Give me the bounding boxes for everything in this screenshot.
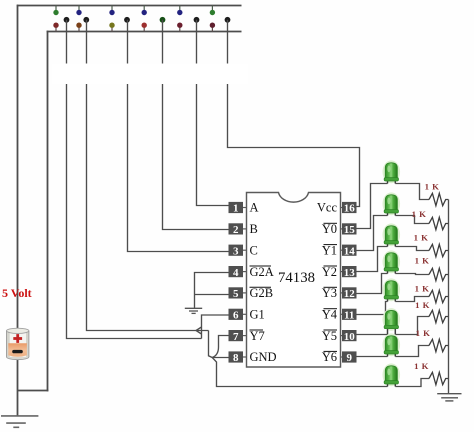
wire battery negative down — [17, 359, 19, 416]
wire U1 pin4 G2A to ground — [195, 273, 229, 309]
wire SW6 to U1 pin16 Vcc — [228, 20, 360, 207]
svg-text:5 Volt: 5 Volt — [2, 286, 32, 300]
U1 pin 16 number — [341, 202, 357, 215]
wire U1 pin 13 Y2 to LED D3 — [357, 247, 388, 272]
svg-text:10: 10 — [344, 331, 356, 343]
resistor R5 1K — [429, 290, 448, 302]
U1 pin 4 label G2A — [250, 265, 274, 279]
wire J1 to J2 — [209, 331, 213, 358]
switch SW2 throw contact high — [76, 6, 81, 16]
junction J1 arrow — [196, 327, 202, 334]
svg-text:GND: GND — [250, 350, 277, 364]
switch SW3 throw contact low — [109, 23, 114, 32]
svg-text:1 K: 1 K — [414, 233, 429, 243]
wire resistor rail to ground — [448, 200, 450, 394]
svg-text:G2B: G2B — [250, 286, 274, 300]
switch SW5 pole — [194, 17, 200, 23]
resistor R1 1K — [429, 193, 448, 205]
wire SW2 to junction J1 — [87, 20, 209, 331]
U1 pin 9 label Y6 — [322, 350, 337, 364]
svg-text:Y7: Y7 — [250, 329, 265, 343]
wire U1 pin7 Y7 to J2 — [212, 336, 228, 358]
wire LED D5 to resistor R5 — [395, 297, 429, 302]
label R8 value 1 K — [414, 361, 429, 371]
label 5 Volt — [2, 286, 32, 300]
U1 pin 7 label Y7 — [250, 329, 265, 343]
U1 pin 11 number — [341, 309, 357, 322]
resistor R7 1K — [429, 339, 448, 351]
svg-text:1 K: 1 K — [425, 182, 440, 192]
wire LED D7 to resistor R7 — [395, 346, 429, 357]
wire SW5 to U1 pin1 A — [197, 20, 229, 206]
label R5 value 1 K — [415, 284, 430, 294]
svg-text:9: 9 — [346, 352, 352, 364]
label R2 value 1 K — [412, 209, 427, 219]
switch SW4 throw contact high — [142, 6, 147, 16]
wire LED D6 to resistor R6 — [395, 317, 429, 335]
wire U1 pin to LED D7 — [357, 356, 388, 358]
U1 pin 15 label Y0 — [322, 222, 337, 236]
LED D8 — [383, 363, 401, 386]
switch SW2 throw contact low — [76, 23, 81, 32]
wire J2 to LED D8 rail — [212, 358, 387, 387]
resistor R6 1K — [429, 310, 448, 322]
resistor R8 1K — [429, 372, 448, 384]
LED D6 — [383, 308, 401, 334]
wire U1 pin 14 Y1 to LED D2 — [357, 216, 388, 251]
U1 pin 5 number — [229, 287, 247, 300]
svg-text:Y2: Y2 — [322, 265, 337, 279]
U1 pin 9 number — [341, 351, 357, 364]
wire U1 pin to LED D6 — [357, 334, 388, 336]
svg-text:5: 5 — [233, 288, 239, 300]
U1 pin 11 label Y4 — [322, 308, 338, 322]
switch SW6 throw contact high — [210, 6, 215, 16]
U1 pin 16 label Vcc — [317, 201, 338, 215]
LED D3 — [383, 223, 401, 246]
svg-text:1 K: 1 K — [414, 361, 429, 371]
svg-text:14: 14 — [344, 245, 356, 257]
switch SW4 pole — [160, 17, 166, 23]
LED D4 — [383, 250, 401, 273]
wire SW4 to U1 pin2 B — [163, 20, 229, 230]
U1 pin 10 number — [341, 330, 357, 343]
svg-text:1 K: 1 K — [412, 209, 427, 219]
svg-text:74138: 74138 — [278, 270, 315, 286]
svg-text:1: 1 — [233, 203, 239, 215]
resistor R2 1K — [429, 217, 448, 229]
label R4 value 1 K — [415, 256, 430, 266]
switch SW1 pole — [64, 17, 70, 23]
U1 pin 1 label A — [250, 201, 259, 215]
label R7 value 1 K — [416, 328, 431, 338]
svg-text:12: 12 — [344, 288, 356, 300]
battery B1 5 Volt — [7, 328, 29, 360]
svg-text:11: 11 — [344, 310, 354, 322]
wire U1 pin5 G2B junction — [195, 294, 229, 296]
svg-text:G1: G1 — [250, 308, 265, 322]
svg-text:1 K: 1 K — [415, 256, 430, 266]
U1 pin 10 label Y5 — [322, 329, 337, 343]
switch SW6 throw contact low — [210, 23, 215, 32]
wire SW1 to junction J1 — [67, 20, 202, 339]
U1 pin 7 number — [229, 330, 247, 343]
wire LED D2 to resistor R2 — [395, 216, 429, 224]
wire LED D4 to resistor R4 — [395, 274, 429, 275]
U1 pin 12 label Y3 — [322, 286, 337, 300]
wire ground inner bus — [47, 31, 242, 33]
ground G2A G2B — [185, 308, 202, 313]
svg-text:1 K: 1 K — [415, 284, 430, 294]
svg-text:8: 8 — [233, 352, 239, 364]
U1 pin 5 label G2B — [250, 286, 274, 300]
U1 pin 12 number — [341, 287, 357, 300]
U1 pin 8 number — [229, 351, 247, 364]
U1 pin 1 number — [229, 202, 247, 215]
svg-text:15: 15 — [344, 224, 356, 236]
wire battery negative to ground bus — [18, 390, 49, 392]
wire +5V left vertical — [17, 5, 19, 331]
U1 pin 2 number — [229, 223, 247, 236]
label R6 value 1 K — [415, 300, 430, 310]
resistor R4 1K — [429, 268, 448, 280]
U1 pin 8 label GND — [250, 350, 277, 364]
LED D2 — [383, 192, 401, 215]
white fade band over switch wires — [52, 64, 248, 85]
U1 pin 6 label G1 — [250, 308, 265, 322]
label R3 value 1 K — [414, 233, 429, 243]
U1 pin 14 number — [341, 245, 357, 258]
wire U1 pin 15 Y0 to LED D1 — [357, 184, 388, 229]
svg-text:Y3: Y3 — [322, 286, 337, 300]
switch SW2 pole — [83, 17, 89, 23]
svg-text:Y0: Y0 — [322, 222, 337, 236]
svg-text:2: 2 — [233, 224, 239, 236]
svg-text:13: 13 — [344, 267, 356, 279]
U1 pin 14 label Y1 — [322, 243, 337, 257]
U1 pin 13 label Y2 — [322, 265, 337, 279]
ground battery — [1, 416, 38, 427]
LED D7 — [383, 333, 401, 356]
switch SW1 throw contact high — [53, 6, 58, 16]
switch SW4 throw contact low — [142, 23, 147, 32]
svg-text:Y5: Y5 — [322, 329, 337, 343]
svg-text:1 K: 1 K — [415, 300, 430, 310]
U1 pin 3 label C — [250, 243, 258, 257]
svg-text:1 K: 1 K — [416, 328, 431, 338]
switch SW3 pole — [124, 17, 130, 23]
label R1 value 1 K — [425, 182, 440, 192]
svg-text:C: C — [250, 243, 258, 257]
switch SW5 throw contact low — [177, 23, 182, 32]
switch SW1 throw contact low — [53, 23, 58, 32]
LED D1 — [383, 160, 401, 183]
wire +5V top bus — [17, 5, 242, 7]
resistor R3 1K — [429, 244, 448, 256]
switch SW3 throw contact high — [109, 6, 114, 16]
label U1 74138 — [278, 270, 315, 286]
wire LED D1 to resistor R1 — [395, 184, 429, 200]
svg-text:G2A: G2A — [250, 265, 274, 279]
svg-text:6: 6 — [233, 310, 239, 322]
wire LED D8 to resistor R8 — [395, 379, 429, 387]
U1 pin 3 number — [229, 245, 247, 258]
svg-text:A: A — [250, 201, 259, 215]
svg-text:Vcc: Vcc — [317, 201, 338, 215]
U1 pin 4 number — [229, 266, 247, 279]
svg-text:Y1: Y1 — [322, 243, 337, 257]
switch SW6 pole — [225, 17, 231, 23]
svg-text:16: 16 — [344, 203, 356, 215]
wire U1 pin 12 Y3 to LED D4 — [357, 274, 388, 294]
wire J2 to U1 pin8 GND — [212, 357, 228, 359]
svg-text:Y6: Y6 — [322, 350, 337, 364]
IC U1 74138 body — [247, 193, 341, 368]
wire SW3 to U1 pin3 C — [128, 20, 229, 252]
U1 pin 2 label B — [250, 222, 258, 236]
U1 pin 6 number — [229, 309, 247, 322]
switch SW5 throw contact high — [177, 6, 182, 16]
LED D5 — [383, 278, 401, 301]
svg-text:4: 4 — [233, 267, 239, 279]
wire ground bus left vertical — [47, 31, 49, 392]
U1 pin 15 number — [341, 223, 357, 236]
U1 pin 13 number — [341, 266, 357, 279]
svg-text:3: 3 — [233, 245, 239, 257]
svg-text:Y4: Y4 — [322, 308, 338, 322]
svg-text:B: B — [250, 222, 258, 236]
wire U1 pin 11 Y4 to LED D5 — [357, 302, 388, 315]
svg-text:7: 7 — [233, 331, 239, 343]
ground LED rail — [437, 394, 461, 401]
wire U1 pin6 G1 down — [202, 315, 229, 339]
wire LED D3 to resistor R3 — [395, 247, 429, 251]
